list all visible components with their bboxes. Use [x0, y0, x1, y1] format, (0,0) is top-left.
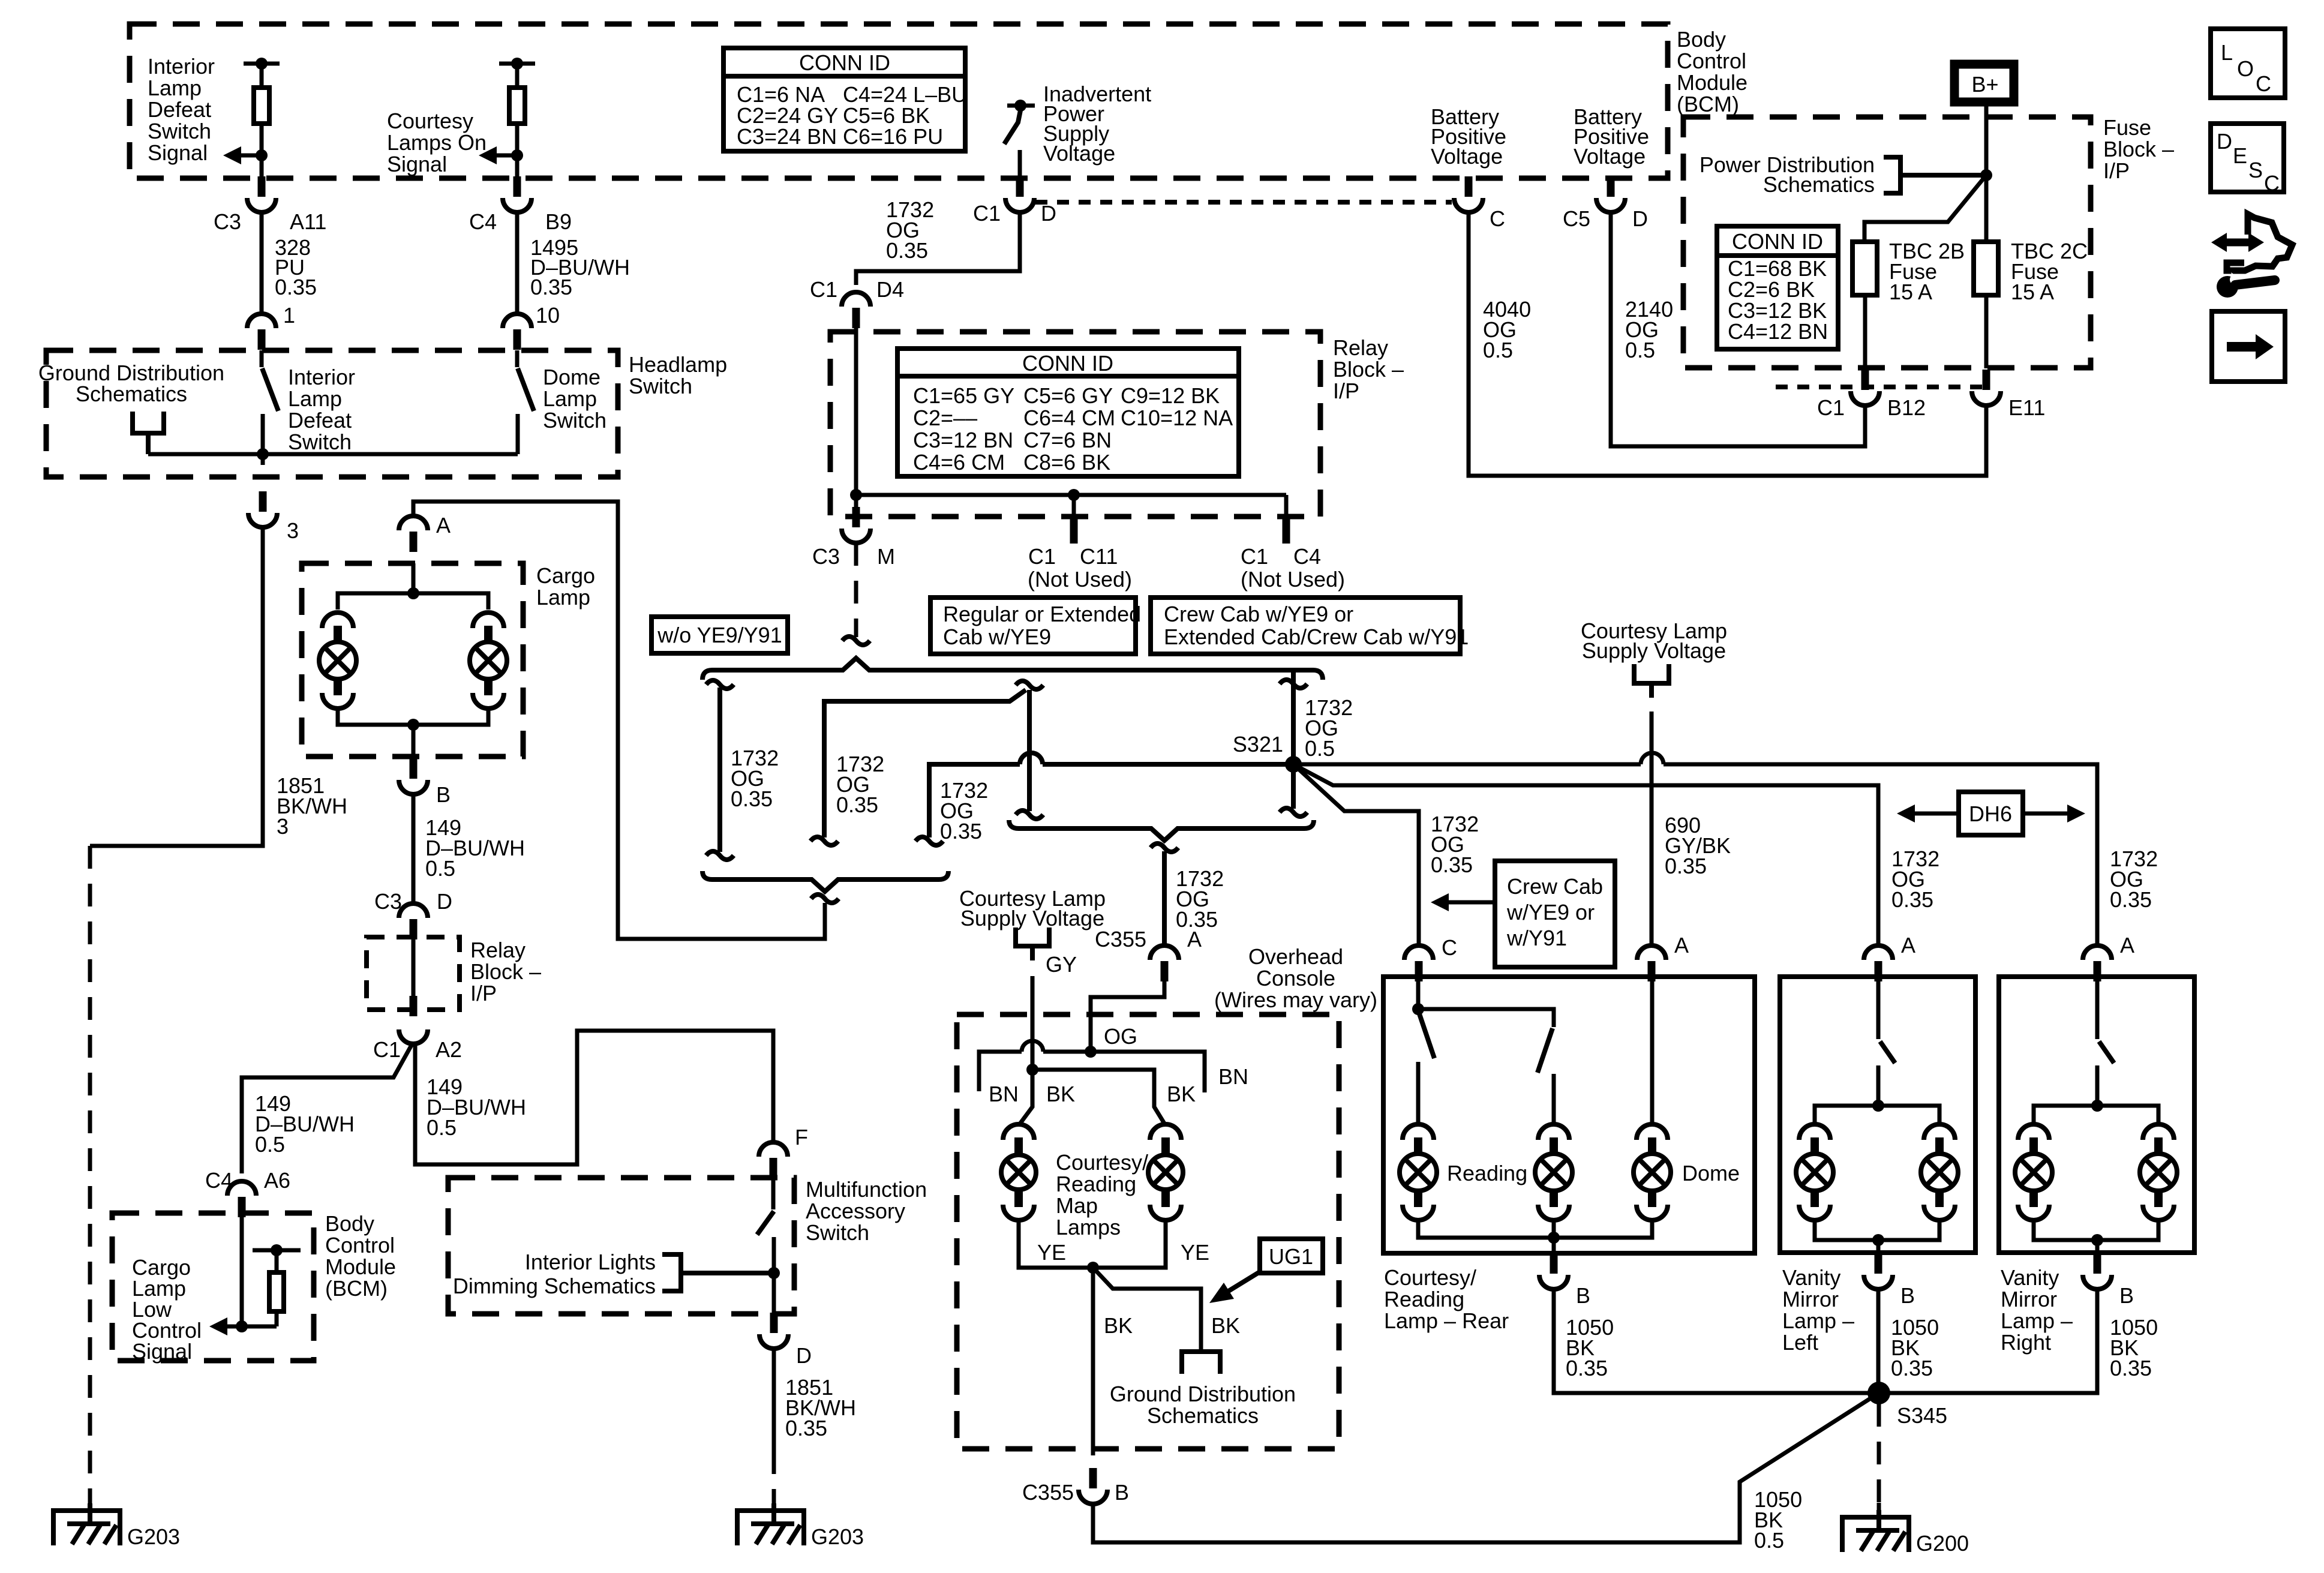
label Headlamp Switch — [629, 352, 727, 398]
svg-text:Fuse: Fuse — [2103, 115, 2151, 140]
connector A (vanity mirror left) — [1864, 933, 1915, 981]
svg-text:Console: Console — [1256, 966, 1335, 990]
wire through relay block — [410, 939, 418, 1016]
svg-text:Interior Lights: Interior Lights — [525, 1250, 656, 1274]
svg-text:0.5: 0.5 — [1754, 1528, 1784, 1553]
label Relay Block - I/P (top) — [1333, 335, 1404, 403]
wire GY — [1032, 952, 1077, 1070]
svg-text:Dome: Dome — [543, 365, 600, 389]
svg-text:Voltage: Voltage — [1043, 141, 1115, 166]
label Courtesy/Reading Map Lamps — [1056, 1150, 1148, 1239]
wire 1732 OG 0.5 (crew cab tap to S321) — [1280, 670, 1353, 816]
wire 4040 OG 0.5 — [1469, 211, 1986, 476]
label Fuse Block - I/P — [2103, 115, 2174, 183]
wire 149 D-BU/WH 0.5 to C4/A6 — [242, 1045, 412, 1173]
svg-text:BK: BK — [1167, 1082, 1196, 1106]
connector C1 / B12 — [1817, 295, 1926, 420]
svg-text:Schematics: Schematics — [76, 382, 187, 406]
svg-text:D4: D4 — [876, 277, 904, 302]
svg-text:BK: BK — [1104, 1313, 1133, 1338]
svg-text:OG: OG — [1104, 1024, 1137, 1049]
svg-text:Block –: Block – — [1333, 357, 1404, 382]
svg-text:Module: Module — [1677, 70, 1747, 95]
svg-text:0.5: 0.5 — [255, 1132, 285, 1157]
svg-text:C: C — [1442, 935, 1457, 960]
wire S321 to vanity mirror right (1732 OG 0.35) — [1299, 753, 2158, 947]
Courtesy/Reading Lamp Rear box — [1383, 977, 1755, 1253]
Cargo Lamp dashed box — [302, 563, 523, 757]
svg-text:Cargo: Cargo — [536, 563, 595, 588]
dashed wire to G203 — [88, 846, 92, 1512]
lamp courtesy/reading map right — [1148, 1124, 1183, 1220]
svg-text:0.5: 0.5 — [427, 1115, 457, 1140]
svg-text:15 A: 15 A — [2011, 280, 2054, 304]
svg-text:B+: B+ — [1971, 72, 1998, 97]
svg-text:(Not Used): (Not Used) — [1028, 567, 1132, 592]
wire vanity left bottom bus — [1815, 1219, 1939, 1253]
svg-text:Lamp: Lamp — [288, 386, 342, 411]
pin C1/C11 not used — [1028, 495, 1132, 592]
svg-text:0.35: 0.35 — [1431, 852, 1473, 877]
label Ground Distribution Schematics — [38, 361, 224, 406]
svg-text:D: D — [437, 889, 452, 914]
label Power Distribution Schematics — [1700, 152, 1875, 197]
wire 149 D-BU/WH 0.5 — [413, 794, 525, 903]
label Body Control Module (BCM) lower — [325, 1211, 396, 1301]
label Interior Lamp Defeat Switch — [288, 365, 355, 454]
brace lower-right (to overhead console) — [1009, 820, 1314, 852]
svg-text:0.35: 0.35 — [1665, 854, 1707, 878]
svg-text:0.35: 0.35 — [2110, 1356, 2152, 1380]
svg-text:0.35: 0.35 — [836, 792, 878, 817]
svg-text:B: B — [2119, 1283, 2134, 1308]
connector C1 / D (inadvertent power) — [973, 176, 1056, 226]
lamp vanity left 1 — [1796, 1124, 1833, 1220]
wire cargo lamp feed (from brace) — [413, 502, 825, 939]
bracket power distribution schematics — [1884, 157, 1986, 193]
svg-text:Crew Cab w/YE9 or: Crew Cab w/YE9 or — [1164, 602, 1353, 626]
wire BN bus — [979, 1041, 1248, 1106]
svg-text:Signal: Signal — [387, 152, 447, 176]
label Overhead Console (Wires may vary) — [1214, 944, 1377, 1012]
UG1 box with arrow — [1209, 1239, 1323, 1303]
label Vanity Mirror Lamp - Left — [1782, 1265, 1854, 1355]
connector A (cargo lamp) — [399, 513, 451, 552]
svg-text:0.35: 0.35 — [1891, 887, 1933, 912]
svg-text:Regular or Extended: Regular or Extended — [943, 602, 1141, 626]
lamp dome — [1634, 1124, 1671, 1220]
connector B (vanity left) — [1864, 1253, 1915, 1308]
svg-text:Lamp: Lamp — [543, 386, 597, 411]
wire B+ feed — [1980, 103, 1992, 181]
Body Control Module (cargo) dashed box — [112, 1213, 314, 1361]
svg-text:C3=24 BN: C3=24 BN — [737, 124, 837, 149]
svg-text:0.35: 0.35 — [785, 1416, 827, 1440]
svg-text:Mirror: Mirror — [1782, 1287, 1839, 1311]
connector 10 (headlamp switch) — [503, 303, 560, 350]
svg-text:Lamp –: Lamp – — [2001, 1308, 2073, 1333]
lamp cargo right — [470, 613, 507, 709]
Overhead Console dashed box — [957, 1014, 1339, 1449]
wire S321 to courtesy reading rear (1732 OG 0.35) — [1293, 764, 1479, 947]
wire 1495 D-BU/WH 0.35 — [517, 211, 630, 313]
svg-text:S345: S345 — [1897, 1403, 1947, 1428]
svg-text:C4=12 BN: C4=12 BN — [1728, 319, 1828, 344]
svg-text:Relay: Relay — [1333, 335, 1388, 360]
svg-text:Lamp: Lamp — [536, 585, 590, 610]
svg-text:Dimming Schematics: Dimming Schematics — [453, 1274, 656, 1298]
option box Regular or Extended Cab w/YE9 — [930, 598, 1141, 654]
svg-text:(BCM): (BCM) — [325, 1276, 388, 1301]
svg-text:Right: Right — [2001, 1330, 2051, 1355]
svg-text:Map: Map — [1056, 1193, 1098, 1218]
svg-text:Switch: Switch — [148, 119, 211, 143]
svg-text:I/P: I/P — [1333, 379, 1359, 403]
connector C355 / B — [1022, 1468, 1129, 1505]
Vanity Mirror Lamp Right box — [1999, 977, 2194, 1253]
svg-text:1: 1 — [283, 303, 295, 328]
brace top (options) — [702, 658, 1323, 680]
svg-text:Headlamp: Headlamp — [629, 352, 727, 377]
wire 1050 BK 0.35 (vanity left) — [1878, 1289, 1939, 1393]
svg-text:Control: Control — [1677, 49, 1746, 73]
svg-text:C: C — [2256, 71, 2271, 96]
svg-text:G200: G200 — [1916, 1531, 1969, 1556]
connector C (courtesy reading rear) — [1404, 935, 1457, 981]
pin C1/C4 not used — [1241, 495, 1345, 592]
callout Crew Cab w/YE9 or w/Y91 — [1431, 861, 1615, 967]
svg-text:Body: Body — [1677, 27, 1726, 52]
icon DESC — [2211, 124, 2284, 196]
option box Crew Cab w/YE9 or Extended Cab/Crew Cab w/Y91 — [1151, 598, 1469, 654]
ground G203 (center) — [737, 1503, 864, 1549]
svg-text:Voltage: Voltage — [1431, 144, 1503, 169]
wire B+ to TBC 2C fuse — [1984, 175, 1989, 242]
wire vanity right bottom bus — [2034, 1219, 2158, 1253]
arrow courtesy lamps on signal — [479, 146, 523, 164]
wire vanity right top bus — [2034, 1106, 2158, 1125]
svg-text:C3=12 BN: C3=12 BN — [913, 428, 1013, 452]
connector B (cargo lamp) — [399, 758, 451, 807]
svg-text:CONN ID: CONN ID — [1732, 229, 1823, 254]
svg-text:0.5: 0.5 — [425, 856, 455, 881]
label Battery Positive Voltage (C5/D) — [1574, 104, 1649, 169]
svg-text:0.35: 0.35 — [530, 275, 572, 299]
connector 1 (headlamp switch) — [247, 303, 295, 350]
lamp vanity left 2 — [1921, 1124, 1958, 1220]
svg-text:A: A — [1901, 933, 1915, 957]
svg-text:w/o YE9/Y91: w/o YE9/Y91 — [657, 623, 782, 647]
wire A6 into BCM — [236, 1217, 248, 1332]
svg-text:Reading: Reading — [1056, 1172, 1136, 1196]
wire OG from C355 A — [1085, 981, 1164, 1058]
wire 1050 BK 0.35 (rear) — [1554, 1289, 1868, 1393]
wire cargo lamp internal bottom — [338, 707, 488, 757]
svg-text:Schematics: Schematics — [1763, 172, 1875, 197]
label Body Control Module (BCM) — [1677, 27, 1747, 116]
connector C4 / B9 — [469, 176, 572, 234]
wire BK right lamp — [1032, 1070, 1196, 1125]
Headlamp Switch dashed box — [46, 350, 618, 477]
connector B (vanity right) — [2083, 1253, 2134, 1308]
label Cargo Lamp — [536, 563, 595, 610]
svg-text:YE: YE — [1037, 1240, 1066, 1265]
svg-text:0.35: 0.35 — [731, 786, 773, 811]
wire 1050 BK 0.5 (to C355 B) — [1093, 1393, 1879, 1553]
svg-text:F: F — [795, 1125, 808, 1149]
Interior Lights Dimming Schematics dashed box — [448, 1178, 794, 1314]
label Reading — [1447, 1161, 1527, 1185]
svg-text:Signal: Signal — [132, 1339, 192, 1364]
svg-text:Reading: Reading — [1447, 1161, 1527, 1185]
wire B+ to TBC 2B fuse — [1864, 175, 1986, 242]
svg-text:(Wires may vary): (Wires may vary) — [1214, 987, 1377, 1012]
label Courtesy Lamp Supply Voltage (GY) — [959, 886, 1106, 930]
svg-text:BK: BK — [1046, 1082, 1075, 1106]
svg-text:Courtesy/: Courtesy/ — [1056, 1150, 1148, 1175]
bracket courtesy lamp supply voltage — [1634, 664, 1669, 698]
svg-text:Body: Body — [325, 1211, 374, 1236]
svg-text:0.35: 0.35 — [1566, 1356, 1608, 1380]
resistor (interior lamp defeat pull-up) — [244, 58, 280, 178]
label Interior Lights Dimming Schematics — [453, 1250, 656, 1298]
svg-text:C9=12 BK: C9=12 BK — [1121, 383, 1220, 408]
wire dome feed — [1650, 981, 1655, 1125]
switch: multifunction accessory — [757, 1177, 780, 1314]
wire S321 to vanity mirror left (1732 OG 0.35) — [1293, 764, 1939, 947]
wire 1732 OG 0.35 to relay block — [856, 197, 1020, 285]
svg-text:Supply Voltage: Supply Voltage — [960, 906, 1104, 930]
svg-text:E11: E11 — [2008, 395, 2045, 420]
svg-text:B12: B12 — [1887, 395, 1926, 420]
svg-text:Lamps On: Lamps On — [387, 130, 487, 155]
svg-text:Lamp: Lamp — [148, 76, 202, 100]
svg-text:CONN ID: CONN ID — [1022, 351, 1113, 376]
connector F (multifunction accessory switch) — [759, 1125, 808, 1178]
svg-text:C3: C3 — [374, 889, 402, 914]
connector B (courtesy reading rear) — [1539, 1253, 1590, 1308]
lamp reading left — [1400, 1124, 1437, 1220]
svg-text:B: B — [1115, 1480, 1129, 1505]
connector C1 / A2 — [373, 1029, 462, 1062]
svg-text:0.35: 0.35 — [1891, 1356, 1933, 1380]
svg-text:I/P: I/P — [2103, 158, 2130, 183]
svg-text:C355: C355 — [1095, 927, 1146, 951]
label Dome — [1682, 1161, 1740, 1185]
svg-text:10: 10 — [536, 303, 560, 328]
connector C (battery positive) — [1454, 176, 1505, 231]
wire 149 D-BU/WH 0.5 to multifunction switch — [415, 1031, 773, 1164]
wire 328 PU 0.35 — [262, 211, 317, 313]
svg-text:C1: C1 — [1817, 395, 1845, 420]
svg-text:C355: C355 — [1022, 1480, 1074, 1505]
Body Control Module (BCM) dashed box — [130, 24, 1668, 178]
connector C4 / A6 — [205, 1168, 290, 1217]
svg-text:BK: BK — [1211, 1313, 1240, 1338]
label Inadvertent Power Supply Voltage — [1043, 82, 1151, 166]
svg-text:Relay: Relay — [470, 938, 526, 962]
svg-text:B9: B9 — [545, 209, 572, 234]
svg-text:DH6: DH6 — [1969, 801, 2012, 826]
svg-text:C2=––: C2=–– — [913, 406, 977, 430]
lamp vanity right 1 — [2015, 1124, 2052, 1220]
bracket courtesy lamp supply voltage GY — [1016, 927, 1049, 960]
svg-text:Lamp – Rear: Lamp – Rear — [1384, 1308, 1509, 1333]
wire YE bus — [1019, 1219, 1209, 1274]
bracket ground distribution — [133, 412, 164, 454]
svg-text:Dome: Dome — [1682, 1161, 1740, 1185]
svg-text:Overhead: Overhead — [1248, 944, 1343, 969]
svg-text:0.35: 0.35 — [2110, 887, 2152, 912]
svg-text:3: 3 — [277, 814, 289, 839]
svg-text:Extended Cab/Crew Cab w/Y91: Extended Cab/Crew Cab w/Y91 — [1164, 625, 1469, 649]
svg-text:0.5: 0.5 — [1483, 338, 1513, 362]
svg-text:w/Y91: w/Y91 — [1506, 926, 1567, 950]
svg-text:C3: C3 — [812, 544, 840, 569]
bracket ground distribution (console) — [1182, 1352, 1220, 1374]
svg-text:L: L — [2221, 40, 2233, 65]
bracket interior lights dimming — [662, 1254, 774, 1291]
svg-text:D: D — [1632, 206, 1648, 231]
splice S345 — [1867, 1382, 1947, 1428]
svg-text:C6=4 CM: C6=4 CM — [1023, 406, 1115, 430]
label Courtesy Lamps On Signal — [387, 109, 487, 176]
svg-text:Multifunction: Multifunction — [806, 1177, 927, 1202]
svg-text:Lamp –: Lamp – — [1782, 1308, 1854, 1333]
switch: inadvertent power supply — [1004, 100, 1035, 178]
svg-text:CONN ID: CONN ID — [799, 50, 890, 75]
lamp cargo left — [319, 613, 356, 709]
connector C3 / M — [812, 495, 895, 569]
wire rear lamp common — [1418, 1219, 1652, 1253]
svg-text:Interior: Interior — [148, 54, 215, 79]
svg-text:Crew Cab: Crew Cab — [1507, 874, 1603, 899]
wire BK to ground bracket — [1093, 1268, 1240, 1352]
wire 1851 BK/WH 0.35 — [774, 1349, 856, 1451]
svg-text:C8=6 BK: C8=6 BK — [1023, 450, 1110, 475]
svg-text:O: O — [2237, 56, 2254, 81]
resistor cargo lamp low control — [253, 1244, 301, 1326]
label Multifunction Accessory Switch — [806, 1177, 927, 1245]
connector A (vanity mirror right) — [2083, 933, 2134, 981]
connector E11 — [1972, 295, 2045, 420]
svg-text:Courtesy/: Courtesy/ — [1384, 1265, 1476, 1290]
svg-text:Cab w/YE9: Cab w/YE9 — [943, 625, 1051, 649]
svg-text:0.35: 0.35 — [886, 238, 928, 263]
bundle wire 1732 OG 0.35 (regular/extended cab) — [810, 681, 1043, 845]
ground G203 (left) — [53, 1503, 180, 1549]
svg-text:C5=6 GY: C5=6 GY — [1023, 383, 1113, 408]
svg-text:C5: C5 — [1563, 206, 1590, 231]
svg-text:GY: GY — [1046, 952, 1077, 977]
connector 3 — [248, 454, 299, 543]
svg-text:A6: A6 — [264, 1168, 290, 1193]
svg-text:Supply Voltage: Supply Voltage — [1582, 638, 1726, 663]
wire BK left lamp — [1019, 1064, 1075, 1125]
svg-text:BN: BN — [989, 1082, 1019, 1106]
svg-text:S321: S321 — [1233, 732, 1283, 757]
svg-text:C1: C1 — [373, 1037, 401, 1062]
svg-text:C1=65 GY: C1=65 GY — [913, 383, 1014, 408]
switch reading lamp 2 — [1418, 1009, 1554, 1125]
svg-text:Signal: Signal — [148, 140, 208, 165]
arrow interior lamp defeat switch signal — [223, 146, 268, 164]
switch vanity right — [2091, 981, 2114, 1112]
svg-text:C1: C1 — [973, 201, 1001, 226]
svg-text:A: A — [2120, 933, 2134, 957]
svg-text:Voltage: Voltage — [1574, 144, 1646, 169]
CONN ID table (relay block) — [897, 349, 1239, 476]
svg-text:0.5: 0.5 — [1305, 736, 1335, 761]
wire 1050 BK 0.35 (vanity right) — [1890, 1289, 2158, 1393]
ground G200 — [1842, 1510, 1969, 1556]
option box w/o YE9/Y91 — [651, 617, 788, 653]
svg-text:E: E — [2233, 143, 2247, 168]
label Ground Distribution Schematics (console) — [1110, 1382, 1296, 1428]
dashed wire M to brace — [842, 543, 870, 645]
svg-text:D: D — [2217, 129, 2232, 154]
svg-text:M: M — [877, 544, 895, 569]
svg-text:C3: C3 — [214, 209, 241, 234]
dashed wire S345 to G200 — [1877, 1404, 1881, 1518]
svg-text:C10=12 NA: C10=12 NA — [1121, 406, 1233, 430]
fuse TBC 2B — [1852, 239, 1965, 304]
svg-text:Reading: Reading — [1384, 1287, 1464, 1311]
svg-text:Left: Left — [1782, 1330, 1818, 1355]
svg-text:C11: C11 — [1080, 544, 1118, 569]
resistor (courtesy lamps on) — [499, 58, 535, 178]
icon wrench arrows — [2211, 214, 2292, 298]
label Dome Lamp Switch — [543, 365, 606, 433]
svg-text:YE: YE — [1181, 1240, 1209, 1265]
svg-text:Switch: Switch — [288, 430, 352, 454]
svg-text:Switch: Switch — [543, 408, 606, 433]
svg-text:Schematics: Schematics — [1147, 1403, 1259, 1428]
arrow cargo lamp low control signal — [209, 1317, 277, 1335]
connector C3 / A11 — [214, 176, 326, 234]
wire BK to C355 B — [1093, 1268, 1133, 1455]
connector C1 / D4 (relay block) — [810, 277, 904, 328]
svg-text:A: A — [436, 513, 451, 538]
svg-text:Defeat: Defeat — [288, 408, 352, 433]
svg-text:A11: A11 — [290, 209, 326, 234]
svg-text:Block –: Block – — [2103, 137, 2174, 161]
svg-text:Switch: Switch — [806, 1220, 869, 1245]
label Battery Positive Voltage (C) — [1431, 104, 1506, 169]
svg-text:0.35: 0.35 — [940, 819, 982, 843]
svg-text:Vanity: Vanity — [2001, 1265, 2059, 1290]
DH6 box with arrows — [1897, 792, 2085, 835]
bundle wire 1732 OG 0.35 (w/o YE9/Y91) — [706, 680, 779, 860]
svg-text:Lamps: Lamps — [1056, 1215, 1121, 1239]
splice S321 — [1233, 732, 1302, 773]
wire cargo lamp internal top — [338, 563, 488, 610]
connector C355 / A — [1095, 927, 1202, 981]
connector D (multifunction switch) — [759, 1313, 812, 1368]
svg-text:Interior: Interior — [288, 365, 355, 389]
svg-text:0.5: 0.5 — [1625, 338, 1655, 362]
switch: dome lamp — [517, 350, 534, 454]
svg-text:B: B — [1900, 1283, 1915, 1308]
svg-text:Ground Distribution: Ground Distribution — [1110, 1382, 1296, 1406]
svg-text:15 A: 15 A — [1889, 280, 1932, 304]
svg-text:A2: A2 — [436, 1037, 462, 1062]
label Vanity Mirror Lamp - Right — [2001, 1265, 2073, 1355]
Vanity Mirror Lamp Left box — [1780, 977, 1975, 1253]
lamp vanity right 2 — [2140, 1124, 2177, 1220]
wire vanity left top bus — [1815, 1106, 1939, 1125]
svg-text:Switch: Switch — [629, 374, 692, 398]
